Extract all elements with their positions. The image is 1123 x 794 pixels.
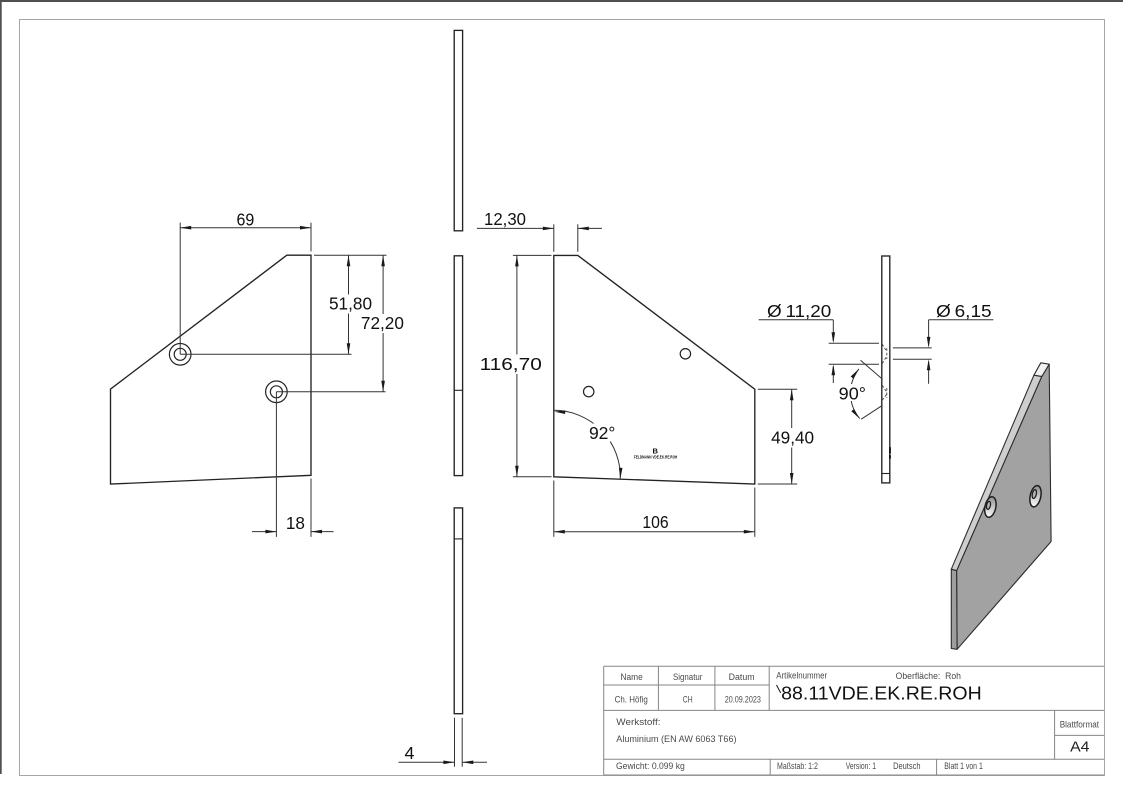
svg-text:Aluminium (EN AW 6063 T66): Aluminium (EN AW 6063 T66)	[616, 734, 736, 744]
svg-text:4: 4	[405, 743, 415, 763]
svg-text:Artikelnummer: Artikelnummer	[776, 671, 827, 681]
svg-text:Version: 1: Version: 1	[846, 761, 876, 771]
svg-text:92°: 92°	[589, 423, 616, 443]
svg-text:Deutsch: Deutsch	[893, 761, 920, 771]
svg-text:FELDMANN VDE.EK.RE.ROH: FELDMANN VDE.EK.RE.ROH	[634, 454, 678, 459]
svg-text:Datum: Datum	[729, 672, 755, 682]
svg-text:Signatur: Signatur	[673, 672, 702, 682]
svg-text:88.11VDE.EK.RE.ROH: 88.11VDE.EK.RE.ROH	[781, 682, 982, 703]
svg-text:Ø 6,15: Ø 6,15	[936, 301, 992, 321]
svg-text:Gewicht: 0.099 kg: Gewicht: 0.099 kg	[616, 761, 685, 771]
svg-text:106: 106	[642, 512, 668, 532]
svg-text:Oberfläche: Roh: Oberfläche: Roh	[896, 671, 961, 681]
svg-text:Ø 11,20: Ø 11,20	[767, 301, 831, 321]
svg-text:20.09.2023: 20.09.2023	[725, 694, 761, 704]
svg-text:51,80: 51,80	[329, 294, 372, 314]
svg-text:12,30: 12,30	[484, 209, 526, 229]
svg-text:Maßstab: 1:2: Maßstab: 1:2	[777, 761, 818, 771]
svg-text:72,20: 72,20	[361, 313, 404, 333]
svg-text:69: 69	[237, 209, 255, 229]
svg-text:18: 18	[286, 513, 305, 533]
svg-text:116,70: 116,70	[480, 354, 542, 374]
svg-text:49,40: 49,40	[771, 427, 814, 447]
svg-text:Ch. Höfig: Ch. Höfig	[615, 694, 648, 704]
svg-text:A4: A4	[1070, 740, 1089, 756]
svg-text:Blatt 1 von 1: Blatt 1 von 1	[944, 761, 983, 771]
svg-text:Blattformat: Blattformat	[1060, 719, 1100, 729]
svg-text:Name: Name	[620, 672, 642, 682]
svg-text:Werkstoff:: Werkstoff:	[616, 717, 660, 727]
svg-text:CH: CH	[683, 694, 693, 704]
svg-text:90°: 90°	[839, 384, 866, 404]
